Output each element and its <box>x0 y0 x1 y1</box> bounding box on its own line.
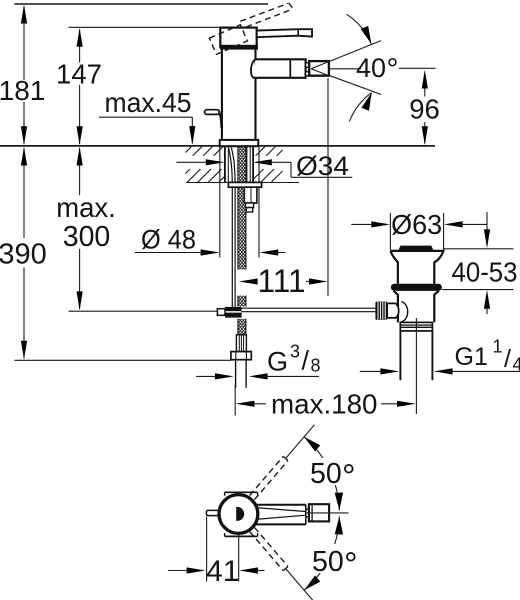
pull rod (double line) <box>231 187 233 307</box>
svg-text:°: ° <box>342 458 356 496</box>
svg-text:max.45: max.45 <box>105 87 192 118</box>
bottom collar <box>400 322 432 331</box>
DRAIN pop-up waste <box>375 246 443 414</box>
svg-text:Ø34: Ø34 <box>296 151 349 181</box>
dim 181 vertical <box>23 6 25 80</box>
centerline <box>415 318 417 414</box>
svg-text:111: 111 <box>258 263 306 299</box>
dim 390 vertical <box>23 148 25 238</box>
mousseur connector nubs <box>306 63 309 67</box>
DIMENSIONS <box>0 4 520 420</box>
drain: dim Ø63 <box>389 213 391 251</box>
40 degree rays and arcs <box>311 41 381 69</box>
rays inside aerator block redrawn <box>311 62 329 69</box>
svg-text:G: G <box>267 347 288 377</box>
pop-up pull rod knob at body rear <box>205 110 220 115</box>
svg-text:300: 300 <box>63 221 111 253</box>
rod guide S-curves <box>229 148 233 188</box>
svg-text:Ø 48: Ø 48 <box>141 225 196 255</box>
countertop bottom line <box>186 182 299 184</box>
ball joint <box>225 307 242 318</box>
lever arm <box>257 29 312 37</box>
handle housing joint band <box>220 45 258 50</box>
spout top view <box>255 504 306 506</box>
Ø48 extension lines <box>219 147 221 258</box>
svg-text:max.180: max.180 <box>271 389 378 420</box>
lever cross-section D <box>236 507 244 521</box>
svg-text:390: 390 <box>0 239 47 271</box>
body below gasket <box>394 291 439 322</box>
dim 147 vertical <box>79 30 81 63</box>
svg-text:4: 4 <box>513 355 520 375</box>
dashed lever down 50 <box>250 527 288 570</box>
shank walls <box>224 146 226 182</box>
handle lever tongue <box>206 510 220 515</box>
escutcheon edge marks <box>225 491 258 493</box>
dim 41 <box>206 517 208 582</box>
escutcheon base <box>220 140 259 146</box>
handle housing <box>220 28 256 47</box>
hose end connector (striped) <box>236 335 246 352</box>
svg-text:181: 181 <box>0 75 45 106</box>
svg-text:/: / <box>504 345 511 373</box>
countertop hatch section <box>155 146 308 183</box>
dim 111 <box>327 78 329 296</box>
mounting nut <box>228 182 261 187</box>
solid ray up <box>286 425 315 458</box>
svg-text:°: ° <box>387 53 399 86</box>
pop-up rod reference line (max300 bottom) <box>69 310 218 312</box>
rubber gasket <box>391 284 442 291</box>
tailpipe <box>399 331 401 380</box>
aerator block <box>309 61 329 76</box>
dim 96 vertical <box>399 67 436 69</box>
arc down 50 <box>304 517 339 591</box>
faucet body cylinder <box>221 49 223 141</box>
countertop top surface line <box>0 145 435 147</box>
svg-text:/: / <box>302 346 310 376</box>
svg-text:°: ° <box>344 546 358 584</box>
spout step piece <box>306 509 312 517</box>
drain: dim 40-53 <box>486 212 488 235</box>
svg-text:50: 50 <box>310 458 342 490</box>
top flange <box>391 251 444 284</box>
svg-text:50: 50 <box>312 546 344 578</box>
knurled knob <box>375 302 387 320</box>
svg-text:G1: G1 <box>455 343 488 371</box>
svg-text:41: 41 <box>206 555 239 588</box>
TOP VIEW <box>168 425 362 600</box>
FAUCET main view <box>205 3 329 146</box>
bottom reference line (hose end level) <box>14 359 231 361</box>
plug cap <box>398 246 433 251</box>
svg-text:3: 3 <box>290 342 300 362</box>
spout <box>253 59 306 78</box>
label G 3/8 with arrows <box>196 375 220 377</box>
inner mechanism arc <box>401 302 407 322</box>
svg-text:Ø63: Ø63 <box>391 209 442 240</box>
top reference line (handle top level) <box>14 3 268 5</box>
label 50° upper <box>306 458 360 485</box>
G3/8 nut <box>231 352 251 360</box>
svg-text:40: 40 <box>356 53 386 83</box>
handle-top reference line 147 <box>69 26 222 28</box>
body circle <box>219 495 258 534</box>
braided hose lower <box>238 296 246 307</box>
horizontal pop-up rod to drain <box>242 307 376 309</box>
mousseur separation line <box>289 59 291 78</box>
svg-text:max.: max. <box>56 192 116 223</box>
svg-text:1: 1 <box>493 337 503 357</box>
spout centerline mark <box>307 512 349 514</box>
svg-text:40-53: 40-53 <box>452 257 518 288</box>
dim Ø34 arrows <box>176 161 211 163</box>
spout-body intersection curve <box>251 59 255 78</box>
dim max.180 <box>234 385 236 416</box>
arc up 50 <box>304 437 339 511</box>
knob boot <box>387 303 399 318</box>
dim max.300 vertical <box>79 148 81 195</box>
dashed handle (raised position) <box>209 25 247 55</box>
svg-text:8: 8 <box>311 356 321 376</box>
supply pipe end <box>235 360 237 388</box>
solid ray down <box>286 569 315 600</box>
svg-text:147: 147 <box>56 59 102 90</box>
aerator block top view <box>309 504 329 521</box>
rod linkage left stub <box>217 309 225 316</box>
label G1 1/4 with arrows <box>360 370 386 372</box>
dashed lever (raised position) <box>240 3 293 27</box>
svg-text:96: 96 <box>409 94 440 125</box>
braided hose upper <box>238 147 246 270</box>
label 50° lower <box>308 544 362 573</box>
dashed lever up 50 <box>250 456 288 499</box>
FAUCET under-counter <box>217 146 375 388</box>
hose nipple fittings <box>244 187 257 203</box>
